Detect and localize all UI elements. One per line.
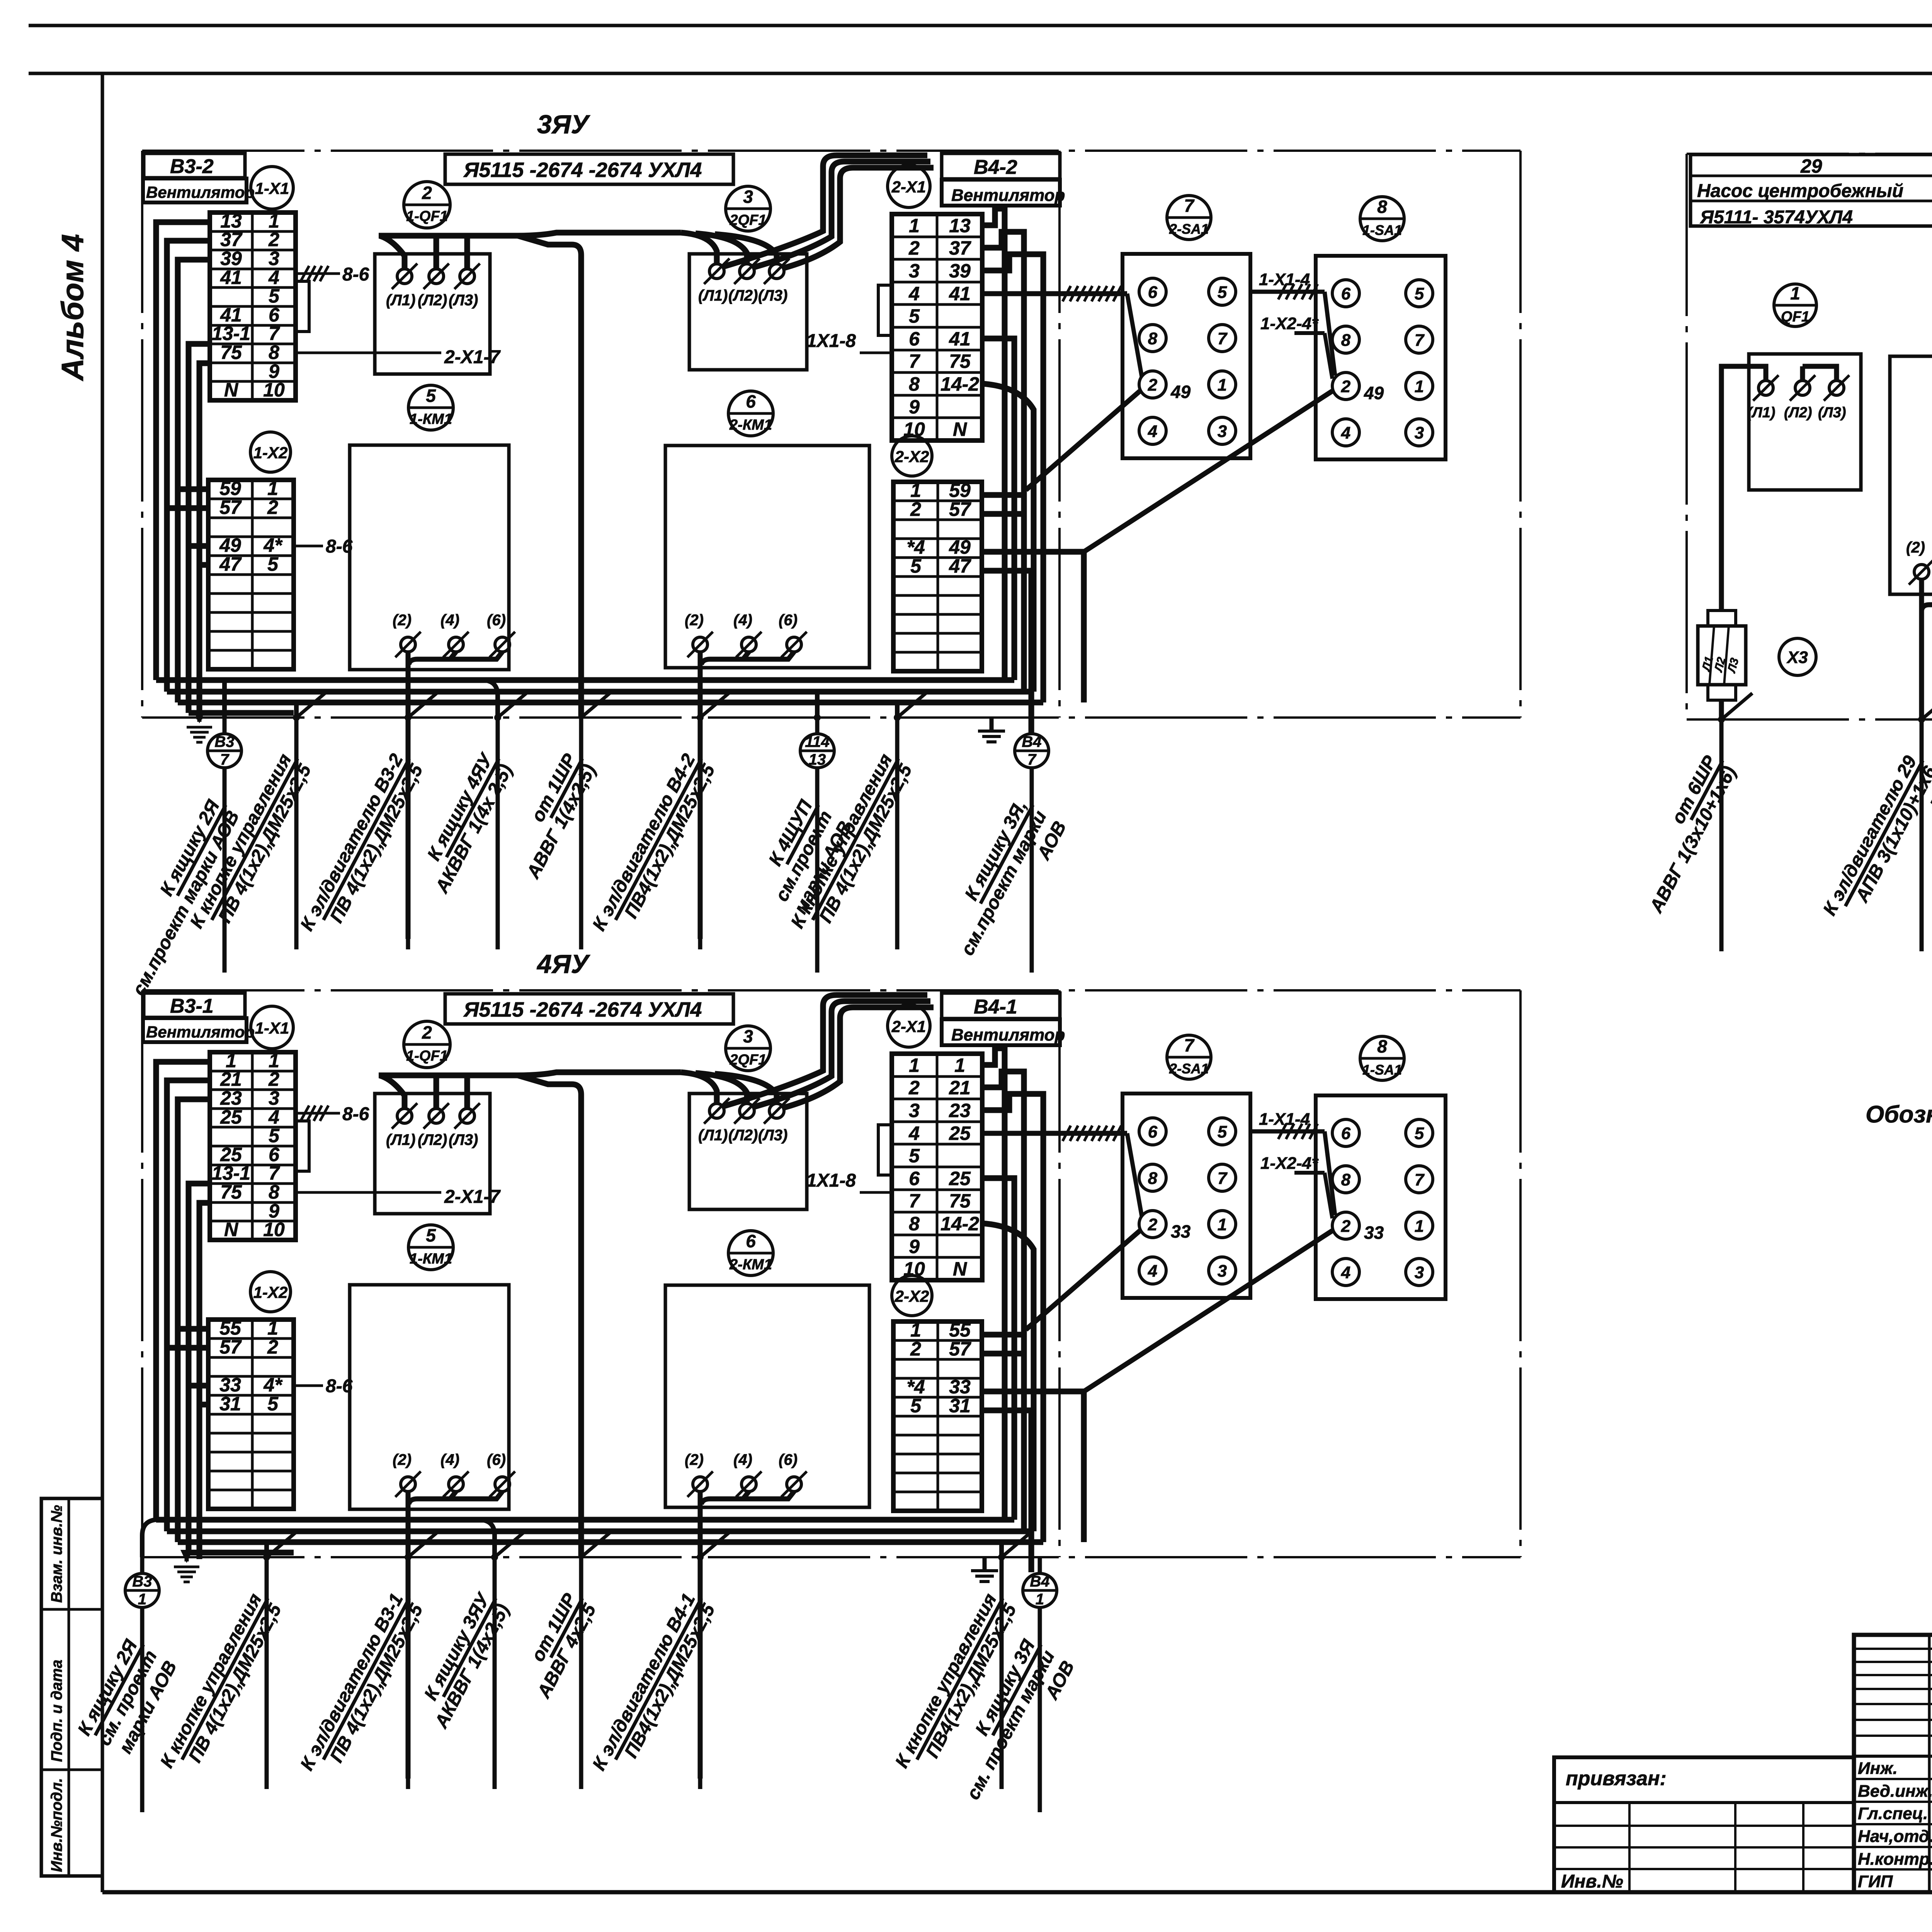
svg-text:39: 39	[949, 260, 971, 282]
svg-text:49: 49	[1170, 382, 1191, 402]
svg-text:(2): (2)	[1906, 539, 1925, 556]
svg-text:7: 7	[1184, 1035, 1195, 1055]
svg-text:1: 1	[909, 215, 920, 236]
terminal block 2-X1	[892, 1054, 982, 1280]
svg-text:Нач,отд.: Нач,отд.	[1858, 1827, 1932, 1846]
svg-text:Альбом 4: Альбом 4	[55, 234, 90, 381]
svg-text:9: 9	[909, 1236, 920, 1257]
svg-text:1: 1	[1218, 376, 1227, 395]
svg-text:8: 8	[1148, 329, 1158, 348]
jumper wire 2-X1 to 2-SA1 (remove)	[982, 291, 1127, 296]
svg-text:(Л2): (Л2)	[418, 292, 447, 309]
svg-text:2-Х1-7: 2-Х1-7	[444, 347, 501, 367]
connector 1-X1	[251, 1006, 293, 1049]
wire harness bottom runs	[156, 677, 1014, 683]
unit 4ЯУ enclosure	[142, 989, 1520, 992]
svg-text:Я5115 -2674 -2674 УХЛ4: Я5115 -2674 -2674 УХЛ4	[463, 998, 702, 1021]
svg-text:1: 1	[1218, 1215, 1227, 1234]
cable К ящику 3Я	[1038, 1557, 1042, 1573]
circuit breaker QF1 (pump)	[1774, 284, 1816, 327]
svg-text:75: 75	[949, 350, 971, 372]
wire KM1 terminals	[406, 1492, 411, 1779]
svg-text:2: 2	[1341, 1217, 1351, 1236]
cable К кнопке управления	[895, 702, 900, 718]
svg-text:2-Х2: 2-Х2	[895, 447, 929, 466]
svg-text:(Л1): (Л1)	[386, 292, 415, 309]
svg-text:2: 2	[268, 1068, 279, 1090]
svg-text:2-Х1: 2-Х1	[891, 178, 926, 196]
jumper tab 2-X1 rows 4-6	[878, 1125, 892, 1175]
svg-text:41: 41	[949, 283, 971, 304]
svg-text:8: 8	[1148, 1169, 1158, 1188]
contactor 2-KM1	[728, 1231, 773, 1276]
svg-text:1: 1	[267, 1317, 278, 1339]
unit 3ЯУ enclosure	[142, 150, 1520, 152]
annotation 1X1-8	[860, 1191, 892, 1194]
svg-text:1-SA1: 1-SA1	[1362, 222, 1402, 238]
svg-text:33: 33	[1171, 1221, 1191, 1242]
svg-text:В4-1: В4-1	[974, 996, 1017, 1018]
title block	[1854, 1635, 1932, 1892]
svg-text:3: 3	[743, 1026, 753, 1046]
svg-text:В4-2: В4-2	[974, 156, 1017, 179]
jumper tab 1-X1 rows 4-6	[296, 1121, 309, 1171]
svg-text:14-2: 14-2	[940, 373, 979, 395]
connector 2-X2	[892, 1276, 932, 1316]
svg-text:4: 4	[908, 1122, 920, 1144]
model label box	[445, 994, 733, 1024]
svg-text:(Л3): (Л3)	[449, 1131, 478, 1148]
svg-text:2-SA1: 2-SA1	[1169, 1061, 1209, 1077]
svg-text:2: 2	[910, 498, 921, 520]
cable К эл/двигателю В3-2	[405, 714, 412, 721]
svg-text:(4): (4)	[733, 1451, 752, 1468]
cable от 6ШР	[1718, 716, 1725, 723]
svg-text:5: 5	[910, 1395, 922, 1417]
svg-text:114: 114	[805, 733, 830, 750]
designator X3	[1779, 638, 1816, 675]
ground	[990, 718, 994, 730]
svg-text:3: 3	[909, 1100, 920, 1121]
wire 1-SA1 pin2 to 2-X2 row4	[1084, 391, 1332, 552]
svg-text:2: 2	[422, 183, 432, 203]
model label box	[445, 154, 733, 184]
svg-text:(6): (6)	[487, 1451, 506, 1468]
svg-text:(6): (6)	[487, 612, 506, 629]
svg-text:6: 6	[909, 1168, 920, 1189]
svg-text:2: 2	[1148, 376, 1158, 395]
svg-text:4: 4	[1148, 1262, 1157, 1281]
svg-text:6: 6	[746, 391, 756, 412]
selector switch 8/1-SA1	[1360, 1036, 1404, 1080]
svg-text:13-1: 13-1	[212, 1162, 250, 1184]
svg-text:5: 5	[1415, 1124, 1424, 1143]
svg-text:9: 9	[909, 396, 920, 418]
svg-text:2: 2	[422, 1022, 432, 1043]
svg-text:Я5111- 3574УХЛ4: Я5111- 3574УХЛ4	[1699, 207, 1853, 228]
wire harness left	[156, 222, 210, 680]
svg-text:Инж.: Инж.	[1858, 1759, 1898, 1778]
svg-text:2QF1: 2QF1	[729, 1052, 766, 1068]
cable от 1ШР	[581, 1531, 612, 1557]
svg-text:(4): (4)	[440, 1451, 459, 1468]
svg-text:(Л2): (Л2)	[728, 287, 758, 304]
svg-text:41: 41	[220, 267, 242, 288]
svg-text:2: 2	[267, 1336, 278, 1358]
svg-text:6: 6	[1148, 1122, 1158, 1141]
wire 1-SA1 pin2 to 2-X2 row4	[1084, 1231, 1332, 1391]
svg-text:2: 2	[1148, 1215, 1158, 1234]
jumper tab 1-X1 rows 4-6	[296, 281, 309, 332]
svg-text:(2): (2)	[393, 612, 412, 629]
svg-text:3: 3	[269, 1087, 279, 1109]
svg-text:В3-2: В3-2	[170, 155, 214, 178]
annotation 8-6 (remove jumper)	[296, 272, 340, 275]
cable К ящику 4ЯУ	[483, 680, 498, 718]
svg-text:1-Х1: 1-Х1	[255, 1019, 289, 1037]
svg-text:7: 7	[1415, 1170, 1425, 1189]
svg-text:Подп. и дата: Подп. и дата	[48, 1660, 65, 1762]
svg-text:4: 4	[908, 283, 920, 304]
svg-text:(2): (2)	[685, 1451, 704, 1468]
svg-text:33: 33	[1364, 1223, 1384, 1243]
svg-text:6: 6	[1148, 283, 1158, 302]
svg-text:37: 37	[949, 237, 971, 259]
svg-text:33: 33	[219, 1374, 241, 1396]
contactor 1-KM1	[408, 1225, 453, 1270]
svg-text:Н.контр.: Н.контр.	[1858, 1850, 1932, 1869]
svg-text:(2): (2)	[393, 1451, 412, 1468]
unit 17ЯУ enclosure	[1687, 153, 1932, 155]
svg-text:10: 10	[263, 1219, 285, 1240]
svg-text:75: 75	[220, 342, 242, 363]
svg-text:Вед.инж.: Вед.инж.	[1858, 1782, 1932, 1801]
terminal block 2-X1	[892, 214, 982, 440]
svg-text:7: 7	[269, 1162, 280, 1184]
svg-text:(Л2): (Л2)	[418, 1131, 447, 1148]
contactor 1-KM1	[408, 385, 453, 430]
svg-text:47: 47	[219, 553, 242, 575]
svg-text:Я5115 -2674 -2674 УХЛ4: Я5115 -2674 -2674 УХЛ4	[463, 158, 702, 182]
terminal block 1-X1	[210, 1052, 296, 1240]
svg-text:8-6: 8-6	[342, 264, 369, 285]
svg-text:3: 3	[1218, 422, 1227, 441]
svg-text:8-6: 8-6	[342, 1104, 369, 1124]
wire KM2 terminals	[698, 1492, 703, 1779]
svg-text:1: 1	[1415, 377, 1424, 396]
svg-text:В3: В3	[132, 1573, 152, 1590]
circuit breaker 2-QF1	[726, 1026, 770, 1071]
svg-text:1: 1	[954, 1054, 965, 1076]
svg-text:1Х1-8: 1Х1-8	[806, 1170, 856, 1191]
svg-text:5: 5	[267, 553, 279, 575]
svg-text:1-КМ1: 1-КМ1	[410, 1251, 452, 1267]
svg-text:2-Х2: 2-Х2	[895, 1287, 929, 1305]
cable от 1ШР	[581, 691, 612, 718]
svg-text:1-Х2: 1-Х2	[253, 1283, 288, 1301]
cable К эл/двигателю 29	[1918, 716, 1925, 723]
svg-text:59: 59	[219, 478, 241, 499]
svg-text:8: 8	[1377, 1036, 1387, 1056]
svg-text:Вентилятор: Вентилятор	[146, 183, 255, 201]
svg-text:Вентилятор: Вентилятор	[951, 1026, 1065, 1044]
svg-text:10: 10	[263, 379, 285, 401]
wire harness right	[982, 1048, 1005, 1520]
svg-text:(4): (4)	[733, 612, 752, 629]
connector 1-X1	[251, 167, 293, 209]
annotation 8-6 (remove jumper)	[296, 1112, 340, 1115]
svg-text:5: 5	[269, 1125, 280, 1146]
cable К эл/двигателю В4-2	[697, 714, 704, 721]
svg-text:1-SA1: 1-SA1	[1362, 1062, 1402, 1078]
svg-text:7: 7	[1218, 1169, 1228, 1188]
svg-text:5: 5	[269, 285, 280, 307]
note privyazan	[1554, 1757, 1854, 1892]
svg-text:1Х1-8: 1Х1-8	[806, 331, 856, 351]
svg-text:(Л1): (Л1)	[386, 1131, 415, 1148]
wire bus to 1ShR drop	[518, 1075, 581, 1557]
fan В4-2 label	[942, 153, 1060, 179]
svg-text:(Л2): (Л2)	[1784, 405, 1812, 421]
selector switch 7/2-SA1	[1167, 196, 1211, 240]
svg-text:7: 7	[220, 751, 230, 768]
svg-text:14-2: 14-2	[940, 1213, 979, 1235]
svg-text:1: 1	[910, 480, 921, 501]
svg-text:3: 3	[743, 187, 753, 207]
svg-text:2-КМ1: 2-КМ1	[729, 417, 772, 433]
svg-text:8: 8	[1341, 1170, 1351, 1189]
svg-text:2: 2	[1341, 377, 1351, 396]
annotation 2-X1-7	[296, 352, 441, 354]
wire harness bottom runs	[156, 1517, 1014, 1523]
svg-text:5: 5	[426, 386, 436, 406]
ground	[983, 1557, 987, 1569]
circuit breaker 2-QF1	[726, 186, 770, 231]
svg-text:55: 55	[219, 1317, 241, 1339]
svg-text:*4: *4	[906, 1376, 925, 1398]
circuit breaker 1-QF1	[404, 1021, 450, 1068]
svg-text:3: 3	[1415, 423, 1424, 442]
contactor 2-KM1	[728, 391, 773, 436]
connector 2-X2	[892, 436, 932, 476]
svg-text:1: 1	[1036, 1591, 1044, 1608]
svg-text:2-SA1: 2-SA1	[1169, 221, 1209, 237]
svg-text:2QF1: 2QF1	[729, 212, 766, 228]
svg-text:25: 25	[220, 1106, 242, 1128]
svg-text:2: 2	[908, 237, 920, 259]
svg-text:7: 7	[909, 1190, 920, 1212]
ground	[185, 1553, 189, 1561]
svg-text:23: 23	[949, 1100, 971, 1121]
svg-text:7: 7	[1415, 331, 1425, 350]
svg-text:N: N	[953, 418, 967, 440]
svg-text:Х3: Х3	[1786, 648, 1808, 667]
svg-text:(4): (4)	[440, 612, 459, 629]
wire QF1 phase bus	[379, 233, 681, 236]
fan В3-1 label	[144, 993, 245, 1017]
svg-text:7: 7	[1218, 329, 1228, 348]
svg-text:4ЯУ: 4ЯУ	[536, 949, 590, 979]
svg-text:23: 23	[220, 1087, 242, 1109]
svg-text:В4: В4	[1030, 1573, 1049, 1590]
terminal block 1-X2	[208, 1320, 294, 1509]
svg-text:1: 1	[138, 1591, 146, 1608]
svg-text:59: 59	[949, 480, 971, 501]
svg-text:3: 3	[269, 248, 279, 269]
wire QF1 phase bus	[379, 1072, 681, 1075]
svg-text:2-Х1: 2-Х1	[891, 1017, 926, 1036]
svg-text:8: 8	[1341, 331, 1351, 350]
svg-text:4: 4	[1341, 1263, 1350, 1282]
svg-text:5: 5	[426, 1225, 436, 1245]
wire supply to QF1	[1721, 366, 1766, 611]
svg-text:5: 5	[909, 1145, 920, 1167]
svg-text:1-КМ1: 1-КМ1	[410, 411, 452, 427]
cable К эл/двигателю В4-1	[697, 1554, 704, 1561]
connector 1-X2	[250, 432, 291, 472]
svg-text:49: 49	[1364, 383, 1384, 403]
svg-text:7: 7	[269, 323, 280, 344]
wire harness right	[982, 209, 1005, 680]
svg-text:1: 1	[267, 478, 278, 499]
svg-text:1: 1	[910, 1319, 921, 1341]
svg-text:75: 75	[220, 1181, 242, 1203]
cable К ящику 3Я,	[1030, 718, 1034, 734]
svg-text:47: 47	[949, 555, 971, 577]
cable К кнопке управления	[294, 702, 299, 718]
svg-text:3: 3	[1415, 1263, 1424, 1282]
svg-text:8: 8	[1377, 197, 1387, 217]
svg-text:5: 5	[909, 305, 920, 327]
svg-text:1-QF1: 1-QF1	[406, 1048, 448, 1064]
annotation 2-X1-7	[296, 1191, 441, 1194]
terminal block 1-X2	[208, 480, 294, 669]
svg-text:25: 25	[949, 1168, 971, 1189]
svg-text:39: 39	[220, 248, 242, 269]
svg-text:1-Х2-4*: 1-Х2-4*	[1260, 314, 1319, 333]
svg-text:(Л3): (Л3)	[449, 292, 478, 309]
svg-text:(Л1): (Л1)	[1747, 405, 1776, 421]
svg-text:5: 5	[267, 1393, 279, 1415]
svg-text:Насос центробежный: Насос центробежный	[1697, 181, 1903, 201]
annotation 8-6 (install jumper)	[294, 545, 323, 548]
svg-text:N: N	[224, 1219, 238, 1240]
svg-text:(6): (6)	[779, 1451, 798, 1468]
svg-text:(6): (6)	[779, 612, 798, 629]
svg-text:7: 7	[1184, 196, 1195, 216]
wire QF2 terminals to top bundle	[723, 995, 927, 1106]
wire KM1 pump terminals	[1919, 579, 1924, 719]
jumper wire 2-X1 to 2-SA1 (remove)	[982, 1131, 1127, 1136]
svg-text:33: 33	[949, 1376, 971, 1398]
svg-text:1: 1	[909, 1054, 920, 1076]
svg-text:8: 8	[909, 1213, 920, 1235]
svg-text:75: 75	[949, 1190, 971, 1212]
svg-text:4: 4	[1341, 423, 1350, 442]
svg-text:*4: *4	[906, 536, 925, 558]
svg-text:7: 7	[1027, 751, 1037, 768]
svg-text:N: N	[224, 379, 238, 401]
svg-text:(Л3): (Л3)	[758, 1127, 787, 1144]
wire 2-SA1 pin2 to 2-X2 row1	[1026, 391, 1140, 490]
svg-text:13-1: 13-1	[212, 323, 250, 344]
svg-text:13: 13	[949, 215, 971, 236]
svg-text:В4: В4	[1022, 733, 1041, 750]
svg-text:(2): (2)	[685, 612, 704, 629]
svg-text:(Л2): (Л2)	[728, 1127, 758, 1144]
svg-text:8: 8	[909, 373, 920, 395]
svg-text:1-Х2: 1-Х2	[253, 444, 288, 462]
svg-text:4*: 4*	[263, 1374, 283, 1396]
terminal block 2-X2	[893, 1321, 982, 1511]
svg-text:5: 5	[1218, 283, 1227, 302]
svg-text:(Л3): (Л3)	[758, 287, 787, 304]
wire 2-SA1 pin2 to 2-X2 row1	[1026, 1231, 1140, 1330]
annotation 8-6 (install jumper)	[294, 1384, 323, 1387]
svg-text:N: N	[953, 1258, 967, 1280]
svg-text:QF1: QF1	[1781, 309, 1810, 325]
svg-text:(Л3): (Л3)	[1818, 405, 1846, 421]
svg-text:6: 6	[1341, 1124, 1351, 1143]
svg-text:привязан:: привязан:	[1566, 1767, 1667, 1790]
svg-text:5: 5	[1218, 1122, 1227, 1141]
svg-text:Инв.№подл.: Инв.№подл.	[48, 1778, 65, 1872]
svg-text:1: 1	[1790, 283, 1800, 303]
svg-text:8: 8	[269, 1181, 279, 1203]
svg-text:57: 57	[949, 1338, 971, 1360]
svg-text:4: 4	[1148, 422, 1157, 441]
cable К ящику 2Я	[142, 1520, 156, 1557]
svg-text:ГИП: ГИП	[1858, 1872, 1893, 1891]
svg-text:1-QF1: 1-QF1	[406, 208, 448, 224]
cable К ящику 3ЯУ	[480, 1520, 495, 1557]
svg-text:21: 21	[220, 1068, 242, 1090]
svg-text:1-Х2-4*: 1-Х2-4*	[1260, 1154, 1319, 1173]
svg-text:57: 57	[219, 497, 242, 518]
wire QF2 terminals to top bundle	[723, 155, 927, 267]
fan В3-2 label	[144, 153, 245, 178]
ground	[197, 713, 202, 722]
svg-text:8: 8	[269, 342, 279, 363]
svg-text:37: 37	[220, 229, 243, 250]
svg-text:2: 2	[268, 229, 279, 250]
svg-text:1-Х1: 1-Х1	[255, 179, 289, 197]
selector switch 7/2-SA1	[1167, 1035, 1211, 1079]
svg-text:13: 13	[809, 751, 826, 768]
wire harness left	[156, 1062, 210, 1520]
connector 2-X1	[888, 1005, 930, 1047]
terminal block 2-X2	[893, 482, 982, 671]
svg-text:31: 31	[219, 1393, 241, 1415]
wire bus to QF2 terminals	[681, 1072, 717, 1104]
svg-text:2-Х1-7: 2-Х1-7	[444, 1187, 501, 1207]
svg-text:6: 6	[1341, 284, 1351, 303]
svg-text:49: 49	[949, 536, 971, 558]
svg-text:3: 3	[1218, 1262, 1227, 1281]
svg-text:6: 6	[746, 1231, 756, 1251]
svg-text:1: 1	[1415, 1217, 1424, 1236]
svg-text:5: 5	[910, 555, 922, 577]
cable К 4ЩУП	[815, 692, 820, 718]
cable К кнопке управления	[264, 1542, 269, 1557]
wire bus to QF2 terminals	[681, 233, 717, 264]
jumper tab 2-X1 rows 4-6	[878, 285, 892, 335]
svg-text:В3: В3	[214, 733, 234, 750]
svg-text:Обозначения:: Обозначения:	[1866, 1101, 1932, 1128]
svg-text:2: 2	[910, 1338, 921, 1360]
pump label box	[1690, 155, 1932, 226]
svg-text:41: 41	[949, 328, 971, 350]
